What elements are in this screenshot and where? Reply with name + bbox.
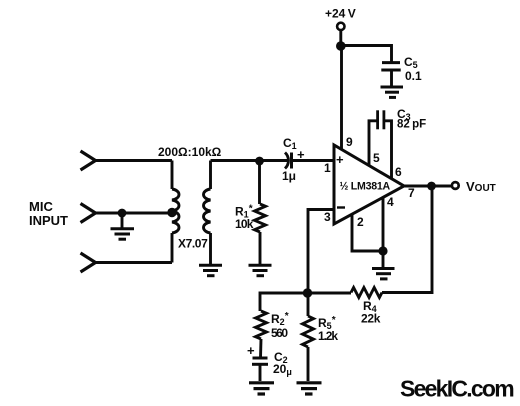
capacitor C2 (polarized, 20u) — [252, 358, 268, 381]
label pin 2 — [357, 215, 364, 229]
capacitor C1 (polarized, 1u) — [285, 153, 333, 169]
label MIC INPUT — [29, 199, 68, 228]
ground under R1 — [249, 265, 272, 275]
wire transformer secondary to C1 — [211, 159, 289, 162]
svg-text:MIC: MIC — [29, 199, 53, 214]
svg-text:C1: C1 — [283, 136, 297, 151]
terminal VOUT — [452, 182, 459, 189]
wire middle input to transformer center tap — [96, 212, 173, 215]
svg-text:INPUT: INPUT — [29, 213, 68, 228]
label pin 7 — [408, 186, 415, 200]
svg-text:4: 4 — [387, 195, 394, 209]
capacitor C3 (82pF) — [369, 110, 392, 178]
svg-text:R2*: R2* — [271, 311, 289, 327]
node junction +24V — [336, 41, 346, 51]
svg-text:SeekIC.com: SeekIC.com — [400, 376, 514, 402]
resistor R5 — [303, 293, 314, 381]
wire pin 9 supply — [340, 46, 343, 150]
capacitor C5 (0.1) — [381, 63, 400, 86]
node junction R1 / C1 — [255, 157, 264, 166]
label C5 0.1 — [404, 55, 422, 83]
node transformer center tap — [167, 208, 176, 217]
label pin 3 — [324, 210, 331, 224]
wire pin 3 feedback to bottom rail — [308, 210, 334, 294]
wire pin 4 down — [382, 198, 385, 252]
ground under R5 — [297, 383, 322, 394]
svg-text:+: + — [247, 343, 255, 358]
label C2 20u — [247, 343, 292, 377]
label VOUT — [466, 179, 496, 194]
ground under middle input — [111, 213, 135, 239]
transformer ratio label X7.07 — [178, 237, 208, 251]
svg-text:2: 2 — [357, 215, 364, 229]
svg-text:20μ: 20μ — [273, 362, 292, 377]
svg-text:7: 7 — [408, 186, 415, 200]
svg-text:200Ω:10kΩ: 200Ω:10kΩ — [158, 145, 222, 159]
node junction pins 2-4 — [378, 246, 387, 255]
svg-text:VOUT: VOUT — [466, 179, 496, 194]
transformer T1 secondary winding — [204, 161, 211, 265]
svg-text:6: 6 — [395, 165, 402, 179]
svg-text:+: + — [336, 152, 344, 167]
op-amp U1 half LM381A — [334, 145, 404, 224]
resistor R2 — [256, 311, 267, 358]
label pin 9 — [346, 135, 353, 149]
svg-text:82 pF: 82 pF — [397, 119, 426, 131]
svg-text:+: + — [297, 147, 305, 162]
svg-text:9: 9 — [346, 135, 353, 149]
svg-text:5: 5 — [373, 151, 380, 165]
wire bottom rail right to R4 — [308, 292, 352, 295]
ground under C5 — [381, 87, 404, 97]
svg-text:1: 1 — [324, 161, 331, 175]
svg-text:X7.07: X7.07 — [178, 237, 208, 251]
transformer T1 primary winding — [172, 161, 179, 263]
svg-text:0.1: 0.1 — [405, 69, 422, 83]
resistor R4 — [351, 288, 382, 298]
wire top input to transformer — [96, 159, 173, 162]
ground under transformer secondary — [199, 265, 222, 275]
connector input arrow bottom — [81, 253, 96, 272]
label C1 — [282, 136, 305, 183]
connector input arrow middle — [81, 204, 96, 223]
label C3 82pF — [397, 107, 426, 131]
wire bottom input to transformer — [96, 261, 173, 264]
label pin 4 — [387, 195, 394, 209]
svg-text:½ LM381A: ½ LM381A — [340, 181, 391, 193]
label pin 1 — [324, 161, 331, 175]
wire R4 to output node — [382, 186, 432, 293]
svg-text:10k: 10k — [235, 217, 254, 231]
ground under C2 — [249, 383, 274, 394]
label pin 6 — [395, 165, 402, 179]
svg-text:560: 560 — [271, 326, 288, 340]
label R4 22k — [361, 299, 381, 326]
wire bottom rail left to R2 — [260, 293, 308, 311]
svg-text:22k: 22k — [361, 312, 381, 326]
terminal +24V — [337, 23, 344, 30]
label +24V — [325, 7, 356, 21]
svg-text:1.2k: 1.2k — [318, 329, 338, 343]
node junction middle input — [118, 209, 127, 218]
label R1* 10k — [235, 204, 254, 232]
node junction bottom rail — [303, 288, 312, 297]
wire op-amp output — [404, 185, 452, 188]
label pin 5 — [373, 151, 380, 165]
svg-text:+24 V: +24 V — [325, 7, 356, 21]
wire +24V to pin 9 — [339, 30, 342, 46]
ground under pins 2-4 — [372, 269, 395, 279]
wire pin 2 to pin 4 junction — [352, 214, 383, 251]
label R2* 560 — [271, 311, 289, 340]
node junction output — [427, 182, 436, 191]
svg-text:C5: C5 — [404, 55, 418, 70]
label R5* 1.2k — [318, 315, 338, 343]
resistor R1 — [255, 161, 266, 264]
wire +24V to C5 — [341, 46, 392, 63]
wire junction to ground — [382, 251, 385, 267]
svg-text:1μ: 1μ — [282, 169, 296, 183]
transformer T1 label 200ohm:10kohm — [158, 145, 222, 159]
svg-text:3: 3 — [324, 210, 331, 224]
connector input arrow top — [81, 151, 96, 170]
